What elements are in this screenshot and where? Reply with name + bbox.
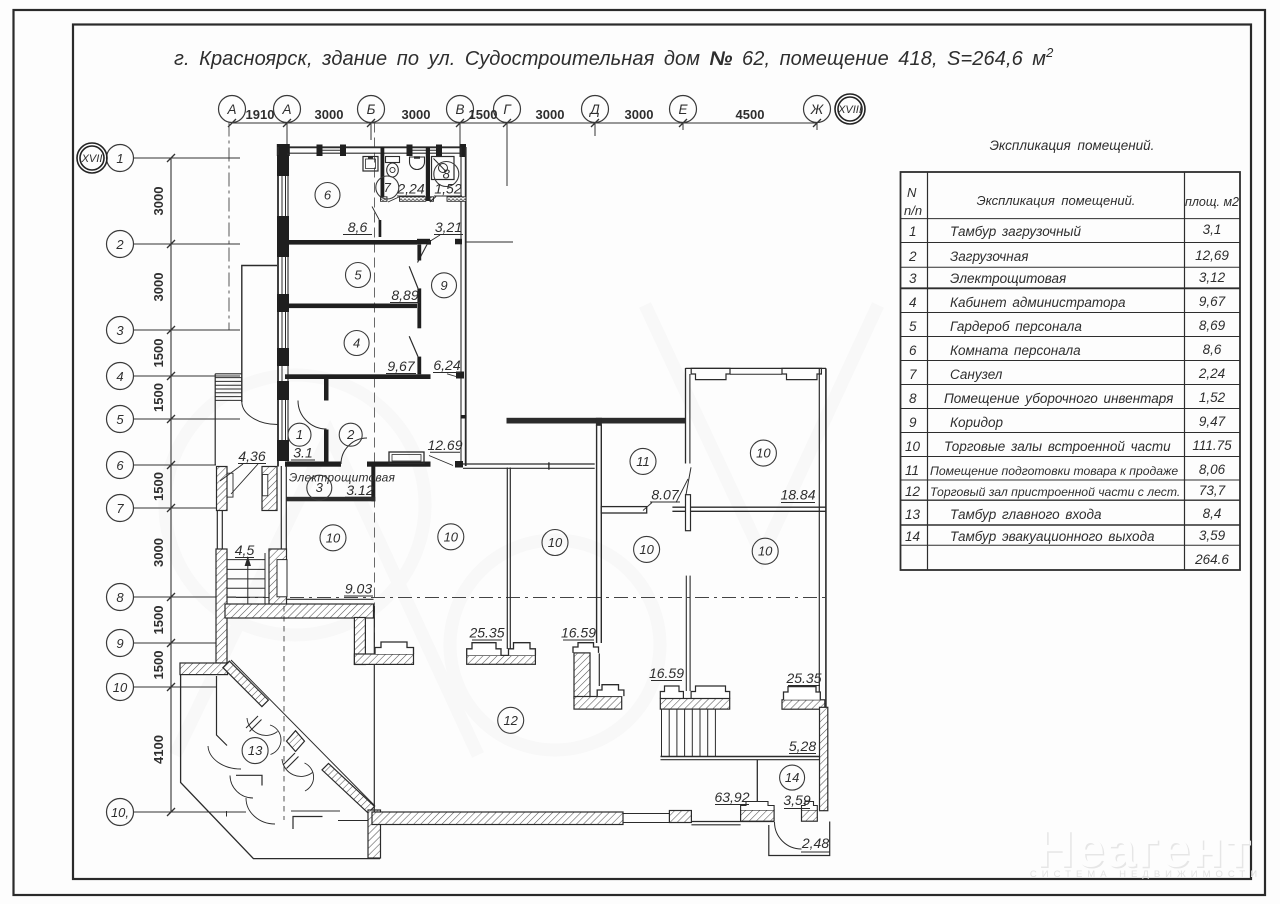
svg-text:8: 8 — [443, 167, 451, 182]
notch in right pylon — [262, 475, 267, 496]
svg-text:А: А — [281, 102, 291, 117]
east wall window jambs — [455, 239, 464, 468]
top axis circles — [219, 96, 831, 123]
svg-text:9,67: 9,67 — [387, 358, 415, 374]
tambour 13 inner partition L1 — [217, 676, 228, 746]
svg-text:1500: 1500 — [151, 383, 166, 412]
right stairs treads — [662, 709, 716, 756]
room 5 door leaf at room6 wall — [418, 245, 428, 263]
svg-text:Кабинет администратора: Кабинет администратора — [950, 295, 1126, 310]
svg-text:11: 11 — [905, 463, 919, 478]
svg-text:5: 5 — [116, 412, 124, 427]
svg-text:1: 1 — [116, 151, 123, 166]
svg-text:1: 1 — [909, 224, 917, 239]
svg-text:10: 10 — [905, 439, 921, 454]
svg-text:4: 4 — [909, 295, 917, 310]
top exterior wall inner line — [288, 152, 461, 154]
pilaster P0 step pier — [375, 642, 414, 654]
pilaster P2 lower step pier — [597, 685, 624, 696]
axis stubs below top circles — [287, 123, 817, 187]
svg-text:3000: 3000 — [151, 273, 166, 302]
west wall window glazing lines — [282, 176, 286, 440]
svg-text:4100: 4100 — [151, 735, 166, 764]
svg-text:1500: 1500 — [151, 651, 166, 680]
room 7 door swing line — [372, 207, 379, 221]
svg-text:Д: Д — [588, 102, 600, 117]
svg-text:10: 10 — [756, 446, 771, 461]
svg-text:Тамбур загрузочный: Тамбур загрузочный — [950, 224, 1081, 239]
svg-text:8,4: 8,4 — [1203, 506, 1222, 521]
svg-text:3,1: 3,1 — [1203, 222, 1222, 237]
south corridor wall outline — [463, 463, 595, 465]
svg-text:11: 11 — [636, 454, 650, 469]
corridor west wall segments — [417, 245, 421, 375]
pilaster P1 hatched band — [467, 655, 536, 664]
diagonal door post diamond — [287, 731, 305, 752]
top wall corner and window jambs — [277, 144, 466, 157]
top axis letters — [226, 102, 861, 117]
svg-text:9: 9 — [116, 636, 123, 651]
svg-text:3000: 3000 — [625, 107, 654, 122]
building bottom wall segments — [691, 821, 774, 823]
electrical cabinet in room 2 — [389, 452, 424, 464]
svg-text:4500: 4500 — [736, 107, 765, 122]
right block top wall pier 2 — [782, 368, 821, 379]
svg-text:14: 14 — [905, 529, 920, 544]
svg-text:5,28: 5,28 — [789, 738, 816, 754]
axis B dashed line — [374, 123, 376, 661]
svg-text:1910: 1910 — [246, 107, 275, 122]
room 1 door arc — [298, 401, 327, 430]
room 14 west partition — [756, 760, 758, 819]
room 4 door leaf — [409, 336, 418, 356]
svg-text:5: 5 — [909, 319, 917, 334]
svg-text:2: 2 — [908, 249, 917, 264]
room 14 exit door arc — [775, 822, 802, 849]
door sill lines in south wall gap — [623, 813, 669, 815]
svg-text:Ж: Ж — [810, 102, 825, 117]
top axis ticks — [228, 119, 821, 127]
hatched band left extension — [180, 663, 228, 675]
diagonal hatched wall segment 1 — [223, 661, 269, 707]
south wall of rooms 1-2 segment b — [367, 462, 431, 467]
svg-text:8,89: 8,89 — [391, 287, 418, 303]
svg-text:1,52: 1,52 — [434, 181, 461, 197]
svg-text:8: 8 — [116, 590, 124, 605]
diagonal wall face line — [231, 660, 375, 806]
toilet in room 7 — [386, 157, 400, 163]
svg-text:6,24: 6,24 — [433, 357, 460, 373]
rooms 7-8 south wall segments — [381, 197, 467, 202]
left axis circles — [107, 145, 134, 826]
west annex door arc to room 1 — [242, 402, 278, 425]
svg-text:Торговые залы встроенной ча: Торговые залы встроенной части — [944, 439, 1171, 454]
porch west outline — [181, 675, 380, 859]
window notch right of left pylon — [227, 473, 233, 497]
left dimension labels (rotated) — [151, 187, 166, 764]
svg-text:14: 14 — [785, 770, 799, 785]
stair treads — [227, 553, 265, 604]
right block top wall outer line — [686, 367, 827, 369]
left axis ticks — [167, 154, 175, 816]
svg-text:8,69: 8,69 — [1199, 318, 1226, 333]
wash sink in room 7 — [410, 157, 425, 170]
svg-text:4,5: 4,5 — [235, 542, 255, 558]
svg-text:7: 7 — [384, 180, 392, 195]
svg-text:Загрузочная: Загрузочная — [950, 249, 1028, 264]
stair up arrow — [247, 560, 249, 617]
pilaster tick on south corridor wall — [548, 462, 550, 469]
svg-text:8,6: 8,6 — [348, 219, 368, 235]
west annex stair top edge — [215, 373, 242, 375]
wall between rooms 6 and 5 — [288, 240, 417, 245]
wall between rooms 11 and 10 right — [672, 506, 826, 508]
axis B east wall inner line — [460, 147, 462, 466]
svg-text:Электрощитовая: Электрощитовая — [950, 271, 1066, 286]
svg-text:1500: 1500 — [151, 339, 166, 368]
south wall hatched pier east of gap — [669, 811, 691, 823]
table body — [905, 222, 1232, 567]
right block west wall lines — [685, 368, 687, 464]
pilaster P2 upper step pier — [573, 643, 599, 653]
svg-text:8,6: 8,6 — [1203, 342, 1222, 357]
svg-text:3: 3 — [909, 271, 917, 286]
bottom hatched pier west — [741, 810, 775, 821]
svg-text:Санузел: Санузел — [950, 367, 1003, 382]
entry pylon left (hatched) — [217, 467, 228, 511]
room 14 top wall lines — [661, 756, 820, 758]
right stairs step piers — [660, 686, 683, 699]
west annex platform outline — [242, 266, 277, 403]
svg-text:3,12: 3,12 — [1199, 270, 1226, 285]
svg-text:12,69: 12,69 — [1195, 248, 1229, 263]
room number circles — [242, 162, 805, 791]
room 3 east wall — [371, 467, 375, 502]
entry 4,36 leader lines — [220, 464, 243, 481]
hidden dashed line left — [283, 606, 285, 820]
room 2 south door arc — [341, 438, 367, 464]
partition between room10 areas — [506, 468, 508, 650]
svg-text:7: 7 — [909, 367, 917, 382]
svg-text:1,52: 1,52 — [1199, 390, 1226, 405]
room 4 south wall — [285, 374, 431, 379]
room 12 south wall hatched band — [372, 812, 623, 825]
stair block white notch — [277, 560, 287, 597]
svg-text:Коридор: Коридор — [950, 415, 1003, 430]
room 7 door leaf — [379, 220, 382, 237]
west exterior wall outer line — [277, 147, 279, 467]
room numbers — [248, 167, 799, 786]
room 11 south wall stub — [601, 507, 646, 513]
pilaster P2 vertical hatched — [574, 653, 590, 699]
axis XVIII double circle — [835, 94, 865, 124]
svg-text:10: 10 — [758, 544, 773, 559]
svg-text:Гардероб персонала: Гардероб персонала — [950, 319, 1082, 334]
svg-text:12: 12 — [905, 484, 921, 499]
axis A1 dash-dot line — [228, 123, 230, 331]
pilaster P0 horizontal hatched band — [354, 654, 413, 664]
right stairs hatched band — [660, 699, 729, 710]
svg-text:площ. м2: площ. м2 — [1185, 195, 1239, 209]
right block top window glazing — [730, 373, 782, 375]
hatched band under stair block — [225, 604, 374, 618]
svg-text:73,7: 73,7 — [1199, 483, 1226, 498]
svg-text:Экспликация помещений.: Экспликация помещений. — [977, 193, 1136, 208]
room 3 south wall — [286, 497, 375, 502]
shower tray in room 8 — [432, 157, 455, 180]
west annex side edge — [214, 374, 216, 466]
svg-text:10,: 10, — [111, 805, 129, 820]
outside stub line at corridor top — [466, 241, 513, 243]
svg-text:8: 8 — [909, 391, 917, 406]
svg-text:3000: 3000 — [402, 107, 431, 122]
pilaster bar at door 8.07 — [686, 495, 691, 531]
svg-text:10: 10 — [548, 535, 563, 550]
svg-text:10: 10 — [444, 529, 459, 544]
top dimension labels — [246, 107, 765, 122]
top dimension line — [232, 122, 817, 124]
svg-text:Помещение подготовки товара: Помещение подготовки товара к продаже — [930, 464, 1178, 478]
svg-text:Тамбур главного входа: Тамбур главного входа — [950, 507, 1102, 522]
svg-text:2,48: 2,48 — [801, 835, 829, 851]
svg-text:Торговый зал пристроенной ч: Торговый зал пристроенной части с лест. — [930, 485, 1180, 499]
svg-text:XVIII: XVIII — [837, 104, 862, 116]
table header — [904, 185, 1239, 218]
east hatched wall lower — [820, 707, 828, 810]
wall between rooms 7 and 8 — [426, 147, 430, 201]
right block east wall lines — [818, 368, 820, 707]
svg-text:6: 6 — [909, 343, 917, 358]
partition at right stairs — [685, 576, 687, 691]
svg-text:г. Красноярск, здание по у: г. Красноярск, здание по ул. Судостроите… — [174, 45, 1054, 70]
room 10 south wall (9.03) lines — [287, 598, 374, 600]
svg-text:Экспликация помещений.: Экспликация помещений. — [990, 138, 1155, 153]
pilaster P2 horizontal hatched — [574, 697, 622, 710]
svg-text:13: 13 — [248, 743, 263, 758]
svg-text:16.59: 16.59 — [649, 665, 684, 681]
svg-text:3.1: 3.1 — [293, 445, 312, 461]
table grid — [901, 172, 1241, 570]
svg-text:63,92: 63,92 — [714, 789, 749, 805]
partition between rooms 1 and 2 lower — [324, 430, 329, 462]
svg-text:12: 12 — [503, 713, 518, 728]
faint avito watermark — [165, 305, 878, 755]
svg-text:10: 10 — [113, 680, 128, 695]
west exterior wall inner line — [287, 153, 289, 466]
porch outline below room 14 — [769, 822, 830, 856]
svg-text:3,21: 3,21 — [435, 219, 462, 235]
svg-text:4: 4 — [353, 336, 360, 351]
left dimension line — [170, 158, 172, 812]
svg-text:2: 2 — [346, 427, 355, 442]
svg-text:9.03: 9.03 — [345, 581, 372, 597]
svg-text:Е: Е — [678, 102, 688, 117]
tambour 13 inner partition L3 — [293, 817, 323, 830]
svg-text:Электрощитовая: Электрощитовая — [289, 471, 395, 485]
west wall window jambs — [277, 155, 289, 461]
corner hatched wall at diagonal end — [368, 810, 381, 858]
leader lines — [388, 197, 688, 511]
svg-text:4: 4 — [116, 369, 123, 384]
room 11 west wall — [596, 425, 598, 643]
sink in room 6 — [363, 157, 378, 172]
pilaster P2 inner corner line — [598, 653, 600, 686]
room 5 door leaf — [409, 266, 418, 288]
svg-text:9,67: 9,67 — [1199, 294, 1226, 309]
svg-text:1500: 1500 — [151, 606, 166, 635]
svg-text:1500: 1500 — [151, 472, 166, 501]
west annex stair treads — [215, 378, 242, 401]
svg-text:8.07: 8.07 — [651, 487, 679, 503]
svg-text:4,36: 4,36 — [238, 448, 265, 464]
axis B east wall outer line — [465, 147, 467, 466]
svg-text:6: 6 — [116, 458, 124, 473]
svg-text:2,24: 2,24 — [1198, 366, 1225, 381]
svg-text:Б: Б — [367, 102, 376, 117]
svg-text:n/n: n/n — [904, 203, 922, 218]
room 7 west wall — [381, 147, 385, 201]
axis XVII double circle — [77, 143, 107, 173]
porch step line — [338, 820, 368, 822]
right block top wall pier 1 — [691, 368, 730, 379]
door 8.07 leaf — [686, 467, 691, 494]
west hatched wall of attached part — [216, 549, 227, 663]
svg-text:111.75: 111.75 — [1192, 438, 1232, 453]
svg-text:12.69: 12.69 — [427, 437, 462, 453]
svg-text:3000: 3000 — [151, 187, 166, 216]
left axis numbers — [81, 151, 129, 820]
svg-text:3,59: 3,59 — [783, 792, 810, 808]
svg-text:N: N — [907, 185, 917, 200]
svg-text:8,06: 8,06 — [1199, 462, 1226, 477]
door jamb right of room6 wall — [427, 240, 431, 245]
svg-text:А: А — [226, 102, 236, 117]
axis B wall line lower — [373, 606, 375, 812]
diagonal hatched wall segment 2 — [322, 763, 375, 813]
svg-text:Г: Г — [503, 102, 512, 117]
svg-text:9: 9 — [440, 278, 447, 293]
tambour 13 inner partition L2 — [236, 775, 262, 785]
svg-text:3000: 3000 — [151, 538, 166, 567]
pilaster P4 hatched band — [782, 700, 825, 709]
entry pylon right (hatched) — [262, 467, 277, 511]
svg-text:2,24: 2,24 — [396, 181, 424, 197]
axis 8 dash-dot line — [236, 597, 826, 599]
long wall between corridor and room 10 — [507, 418, 686, 424]
svg-text:3: 3 — [116, 323, 124, 338]
partition between rooms 1 and 2 upper — [324, 379, 329, 401]
svg-text:XVII: XVII — [81, 153, 103, 165]
svg-text:СИСТЕМА НЕДВИЖИМОСТИ: СИСТЕМА НЕДВИЖИМОСТИ — [1030, 869, 1262, 880]
corridor 9 top wall — [417, 239, 430, 245]
svg-text:Тамбур эвакуационного выхода: Тамбур эвакуационного выхода — [950, 529, 1155, 544]
landing west wall lines — [216, 511, 218, 550]
pilaster P1 step piers — [467, 643, 501, 656]
svg-text:3000: 3000 — [315, 107, 344, 122]
pilaster P4 step pier — [784, 687, 821, 700]
svg-text:Помещение уборочного инвента: Помещение уборочного инвентаря — [944, 391, 1173, 406]
svg-text:5: 5 — [354, 268, 362, 283]
svg-text:7: 7 — [116, 501, 124, 516]
svg-text:9,47: 9,47 — [1199, 414, 1226, 429]
bottom hatched pier east — [802, 810, 818, 821]
window tick on east wall — [461, 415, 467, 419]
entrance door leaves — [246, 716, 299, 769]
svg-text:13: 13 — [905, 507, 921, 522]
svg-text:3,59: 3,59 — [1199, 528, 1226, 543]
top wall window glazing lines — [322, 149, 340, 151]
wall between rooms 5 and 4 — [288, 304, 417, 309]
svg-text:1: 1 — [296, 427, 303, 442]
svg-text:10: 10 — [639, 542, 654, 557]
stair right hatched block — [269, 549, 287, 618]
south wall of rooms 1-2 segment a — [285, 462, 341, 467]
svg-text:Комната персонала: Комната персонала — [950, 343, 1081, 358]
porch tick — [226, 811, 228, 817]
room label texts with underlines — [235, 181, 830, 852]
svg-text:1500: 1500 — [469, 107, 498, 122]
svg-text:2: 2 — [115, 237, 124, 252]
svg-text:25.35: 25.35 — [785, 670, 821, 686]
svg-text:10: 10 — [326, 530, 341, 545]
svg-text:16.59: 16.59 — [561, 625, 596, 641]
room 3 west wall lines — [280, 466, 282, 549]
entrance door arcs — [208, 718, 314, 824]
pilaster P0 vertical hatched — [354, 618, 365, 665]
svg-text:25.35: 25.35 — [468, 625, 504, 641]
top exterior wall outer line — [277, 146, 466, 148]
svg-text:18.84: 18.84 — [780, 487, 815, 503]
left axis row lines — [134, 158, 341, 812]
svg-text:В: В — [455, 102, 464, 117]
svg-text:3000: 3000 — [536, 107, 565, 122]
svg-text:264.6: 264.6 — [1194, 552, 1229, 567]
svg-text:9: 9 — [909, 415, 917, 430]
svg-text:6: 6 — [324, 188, 332, 203]
